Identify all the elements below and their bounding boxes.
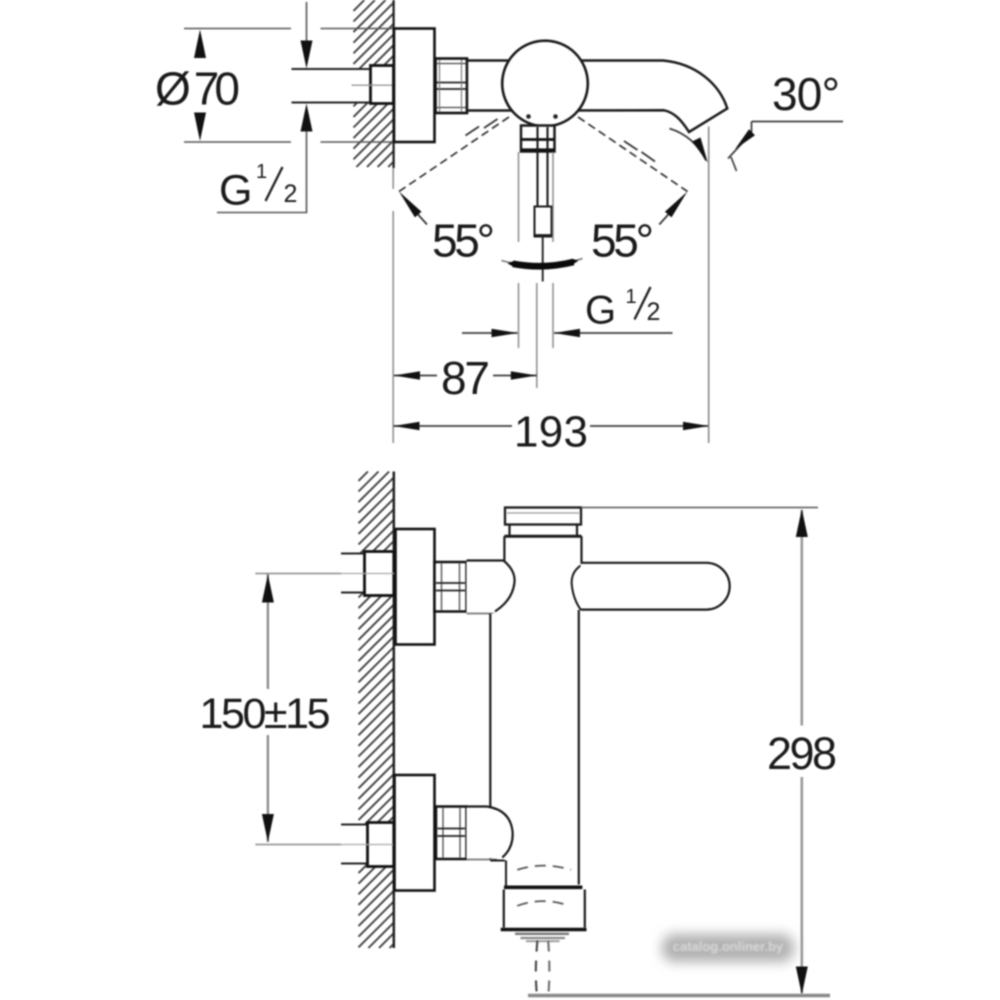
svg-text:55°: 55°	[432, 215, 495, 267]
wall hatching (front view)	[359, 472, 394, 949]
svg-text:193: 193	[514, 408, 588, 457]
svg-text:1: 1	[626, 286, 637, 308]
55 leader arrow right	[665, 192, 688, 218]
87 dimension	[394, 375, 437, 377]
svg-text:1: 1	[256, 161, 267, 183]
193 dimension	[394, 425, 513, 427]
lever shaft	[536, 127, 538, 207]
298 dimension	[581, 507, 818, 509]
bottom escutcheon (front view)	[395, 775, 435, 891]
svg-text:G: G	[219, 167, 252, 215]
top S-union hex nut	[435, 562, 467, 612]
cap neck	[508, 525, 510, 536]
center extension line for 87	[536, 283, 538, 388]
hidden dashed arc (lower)	[517, 901, 569, 906]
pipe centerline	[352, 84, 393, 86]
body cap (front view)	[505, 508, 581, 525]
svg-text:Ø 70: Ø 70	[155, 63, 240, 115]
svg-text:87: 87	[441, 352, 490, 404]
svg-text:55°: 55°	[591, 215, 654, 267]
wall face line (top view)	[392, 0, 394, 168]
outlet direction curved arrow	[670, 129, 707, 161]
sphere dots	[526, 114, 531, 119]
watermark	[662, 934, 794, 962]
outlet upper housing	[490, 860, 505, 862]
diameter 70 extension lines	[184, 28, 291, 30]
dashed lever swing line (left 55)	[399, 117, 509, 192]
mousseur housing	[504, 890, 585, 929]
30 degree annotation	[752, 121, 844, 123]
wall hatching (top view)	[354, 0, 394, 167]
wall face extension line down to dimensions	[392, 168, 394, 189]
right waist arc (lever mount)	[572, 565, 582, 610]
lever collar (top view)	[521, 126, 555, 152]
55 leader arrow left	[399, 192, 422, 218]
flange between housing sections	[504, 885, 582, 889]
swing arc double arrow under lever	[502, 259, 583, 267]
diameter 70 arrows	[194, 30, 206, 59]
svg-text:298: 298	[767, 728, 837, 779]
svg-text:G: G	[585, 289, 616, 333]
G1/2 leader (top label)	[217, 212, 307, 214]
upper body edges	[503, 536, 505, 560]
bottom wall nut	[368, 823, 394, 867]
G1/2 extension lines (below lever)	[518, 152, 520, 242]
150 dimension centerline extensions	[255, 573, 341, 575]
dashed lever swing line (right 55)	[578, 117, 688, 192]
wall face line (front view)	[393, 472, 396, 949]
lever (front view)	[581, 563, 730, 610]
supply pipe behind wall (top view)	[292, 69, 372, 103]
G1/2 pipe dimension vertical line + arrows	[306, 2, 308, 41]
G1/2 dimension (middle)	[462, 332, 518, 334]
lever knob	[535, 207, 552, 237]
spout outlet extension line (for 193)	[708, 127, 710, 444]
top supply pipe (front view)	[341, 554, 365, 593]
handle sphere (top view)	[502, 41, 588, 127]
top escutcheon (front view)	[396, 529, 435, 645]
lever axis line	[542, 237, 544, 282]
bottom S-union hex nut	[436, 807, 467, 860]
flange line	[504, 535, 581, 538]
svg-text:2: 2	[647, 298, 661, 326]
lower body	[490, 614, 579, 885]
bottom supply pipe (front view)	[341, 825, 368, 864]
mousseur rim steps	[515, 933, 569, 935]
svg-text:30°: 30°	[772, 68, 840, 120]
hex union nut (top view)	[436, 59, 468, 114]
faucet body + spout (top view)	[467, 61, 727, 133]
escutcheon (top view, side)	[394, 29, 435, 143]
top adapter	[467, 561, 515, 614]
bottom adapter + elbow	[467, 807, 513, 860]
top wall nut	[365, 552, 394, 596]
hidden cartridge dashed arc (upper)	[517, 866, 571, 870]
wall union nut behind wall (top view)	[371, 66, 394, 104]
hidden outlet tube (dashed)	[536, 941, 538, 995]
svg-text:2: 2	[284, 180, 298, 208]
150+-15 dimension	[267, 574, 269, 689]
svg-text:150±15: 150±15	[200, 690, 331, 738]
